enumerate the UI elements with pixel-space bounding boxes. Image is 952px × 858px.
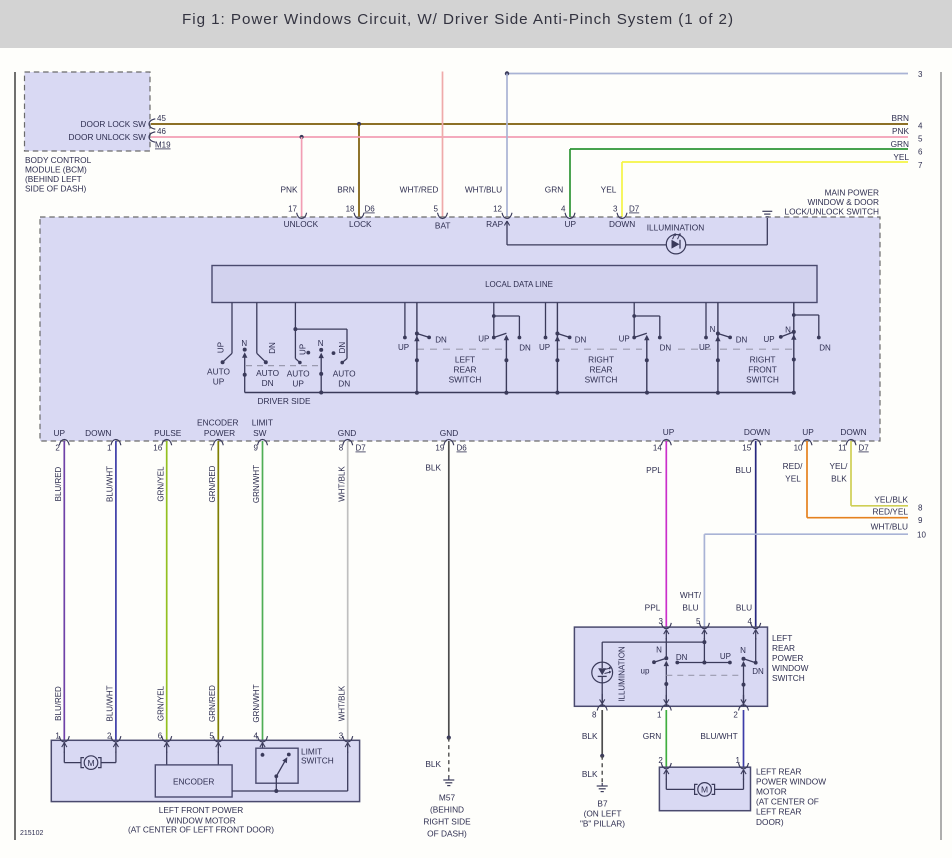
svg-text:6: 6 [918, 148, 923, 157]
svg-text:GRN/WHT: GRN/WHT [252, 465, 261, 503]
svg-text:12: 12 [493, 205, 502, 214]
svg-text:15: 15 [742, 444, 751, 453]
svg-text:AUTO: AUTO [287, 369, 310, 379]
wire label BLU at left rear switch [736, 603, 752, 613]
label DRIVER SIDE [257, 396, 310, 406]
svg-text:4: 4 [918, 122, 923, 131]
svg-text:YEL: YEL [601, 185, 617, 195]
svg-text:M57: M57 [439, 793, 456, 803]
svg-text:SWITCH: SWITCH [772, 673, 805, 683]
left rear power window switch S2 box [574, 627, 767, 706]
svg-text:UP: UP [478, 335, 489, 344]
right rear switch bracket pair [619, 303, 672, 393]
svg-text:AUTO: AUTO [256, 368, 279, 378]
svg-text:B7: B7 [597, 799, 608, 809]
svg-text:REAR: REAR [589, 365, 612, 375]
svg-text:BLU: BLU [735, 465, 751, 475]
svg-text:GRN: GRN [891, 139, 909, 149]
svg-text:M: M [701, 785, 708, 795]
svg-text:GRN/WHT: GRN/WHT [252, 684, 261, 722]
wire label WHT/RED at pin 5 [400, 185, 439, 195]
svg-text:DOWN: DOWN [840, 427, 866, 437]
left rear switch pole left labels [641, 646, 688, 676]
svg-text:LOCAL DATA LINE: LOCAL DATA LINE [485, 280, 553, 289]
wire BRN vertical drop to switch pin 18 [358, 124, 360, 217]
left front motor pin 4 [254, 731, 268, 742]
wire label BLK upper [425, 463, 441, 473]
wire GRN from right edge node 6 to switch pin 4 [570, 149, 908, 217]
right front switch second pole with bracket [763, 303, 831, 393]
wire label YEL/BLK upper [830, 461, 849, 483]
wire BLU/WHT pin 1 to motor pin 2 [115, 441, 117, 740]
ground label M57 (BEHIND RIGHT SIDE OF DASH) [423, 793, 471, 839]
svg-text:2: 2 [55, 444, 60, 453]
svg-text:UP: UP [299, 344, 308, 355]
switch pin 10 [794, 439, 812, 452]
svg-text:19: 19 [435, 444, 444, 453]
svg-text:(AT CENTER OF LEFT FRONT DOOR): (AT CENTER OF LEFT FRONT DOOR) [128, 825, 274, 835]
right page border [940, 72, 942, 840]
wire BLU/RED pin 2 to motor pin 1 [63, 441, 65, 740]
svg-text:Fig 1: Power Windows Circuit,: Fig 1: Power Windows Circuit, W/ Driver … [182, 11, 734, 28]
switch bottom labels row [54, 418, 867, 439]
svg-text:DN: DN [338, 379, 350, 389]
BCM connector pin 45 [149, 114, 166, 129]
svg-text:WHT/: WHT/ [680, 590, 702, 600]
left rear switch pin 5 arrow [702, 630, 707, 640]
wire label BLK at ground [582, 769, 598, 779]
left front motor caption [128, 805, 274, 835]
right edge label GRN and number 6 [891, 139, 923, 157]
svg-text:YEL/: YEL/ [830, 461, 849, 471]
switch pin 15 [742, 439, 760, 452]
svg-text:DN: DN [660, 343, 672, 352]
driver second auto-up bracket [293, 303, 347, 365]
svg-text:GRN: GRN [643, 731, 661, 741]
svg-text:7: 7 [209, 444, 214, 453]
wire PNK horizontal from BCM pin 46 to right edge node 5 [151, 136, 908, 138]
wire BLK pin 19 to ground M57 [447, 441, 451, 777]
svg-text:LOCK: LOCK [349, 219, 372, 229]
svg-text:MAIN POWER: MAIN POWER [825, 188, 879, 198]
svg-text:1: 1 [107, 444, 112, 453]
svg-text:WHT/BLK: WHT/BLK [337, 466, 346, 502]
svg-text:UP: UP [720, 652, 731, 661]
svg-text:BLU/WHT: BLU/WHT [106, 685, 115, 721]
svg-text:GRN/RED: GRN/RED [208, 465, 217, 502]
svg-text:46: 46 [157, 127, 166, 136]
svg-text:WHT/BLK: WHT/BLK [337, 685, 346, 721]
svg-text:BLU: BLU [682, 603, 698, 613]
junction on BRN wire [357, 122, 361, 126]
left rear switch illumination branch [602, 642, 704, 662]
driver auto-dn switch throw DN [257, 303, 277, 365]
wire GRN/WHT pin 9 to motor pin 4 [262, 441, 264, 740]
switch pin 18 LOCK connector D6 [346, 205, 376, 230]
svg-text:2: 2 [733, 710, 738, 719]
label LEFT REAR SWITCH [449, 355, 482, 385]
left rear switch pin 4 [748, 617, 761, 629]
chassis ground at switch top edge [762, 211, 772, 217]
svg-text:BRN: BRN [891, 113, 909, 123]
svg-text:2: 2 [658, 756, 663, 765]
svg-text:BLU/RED: BLU/RED [54, 466, 63, 501]
svg-text:SWITCH: SWITCH [746, 375, 779, 385]
left rear switch up/down pole right [741, 638, 758, 706]
driver mechanical link dashed [246, 365, 319, 367]
svg-text:N: N [318, 339, 324, 348]
svg-text:SWITCH: SWITCH [301, 756, 334, 766]
local data line bus box [212, 266, 817, 303]
limit switch S3 contacts [261, 753, 291, 791]
svg-text:BLU/WHT: BLU/WHT [106, 466, 115, 502]
BCM caption [25, 155, 92, 194]
svg-text:45: 45 [157, 114, 166, 123]
left rear switch pin 8 [592, 705, 607, 720]
svg-text:D6: D6 [365, 205, 376, 214]
svg-text:LOCK/UNLOCK SWITCH: LOCK/UNLOCK SWITCH [784, 207, 879, 217]
svg-text:BRN: BRN [337, 185, 355, 195]
svg-text:UP: UP [763, 335, 774, 344]
svg-text:ILLUMINATION: ILLUMINATION [617, 646, 626, 702]
svg-text:4: 4 [561, 205, 566, 214]
wire label WHT/BLU at left rear switch [680, 590, 702, 613]
driver auto-up switch throw UP [217, 303, 233, 365]
svg-text:SW: SW [253, 428, 267, 438]
svg-text:BLK: BLK [582, 769, 598, 779]
svg-text:DRIVER SIDE: DRIVER SIDE [257, 396, 310, 406]
wire label PNK at pin 17 [280, 185, 298, 195]
svg-text:DOWN: DOWN [744, 427, 770, 437]
right edge label YEL/BLK and number 8 [874, 494, 923, 512]
switch pin 7 [209, 439, 223, 452]
wire label YEL at pin 3 [601, 185, 617, 195]
svg-text:4: 4 [254, 731, 259, 740]
svg-text:SWITCH: SWITCH [449, 375, 482, 385]
svg-text:UP: UP [619, 335, 630, 344]
svg-text:RIGHT: RIGHT [588, 355, 614, 365]
svg-text:DN: DN [752, 667, 764, 676]
svg-text:LEFT: LEFT [455, 355, 475, 365]
svg-text:RIGHT: RIGHT [750, 355, 776, 365]
svg-text:D7: D7 [629, 205, 640, 214]
svg-text:UP: UP [663, 427, 675, 437]
svg-text:UP: UP [54, 428, 66, 438]
svg-text:LEFT REAR: LEFT REAR [756, 766, 802, 776]
left rear switch feed junctions [702, 638, 706, 665]
svg-text:PULSE: PULSE [154, 428, 182, 438]
svg-text:ENCODER: ENCODER [173, 777, 215, 787]
svg-text:PPL: PPL [645, 603, 661, 613]
left rear switch pin 2 [733, 705, 748, 720]
svg-text:UP: UP [539, 343, 550, 352]
svg-text:REAR: REAR [453, 365, 476, 375]
left rear switch mechanical link dashed [666, 674, 743, 676]
svg-text:OF DASH): OF DASH) [427, 829, 467, 839]
left rear switch pin 5 [696, 617, 709, 629]
switch pin 2 [55, 439, 69, 452]
BCM pin label DOOR UNLOCK SW [69, 132, 147, 142]
svg-text:3: 3 [918, 70, 923, 79]
driver second switch neutral pole N [318, 339, 324, 393]
wire label BLK at pin 8 [582, 731, 598, 741]
wire BLK left rear switch pin 8 to ground B7 [600, 710, 604, 783]
svg-text:8: 8 [918, 503, 923, 512]
left front motor M1 symbol [64, 752, 116, 770]
svg-text:3: 3 [659, 617, 664, 626]
svg-text:YEL: YEL [893, 152, 909, 162]
svg-text:M: M [87, 758, 94, 768]
switch pin 5 BAT [434, 205, 451, 231]
wire label GRN [643, 731, 661, 741]
label AUTO DN first [256, 368, 279, 388]
switch pin 12 RAP [486, 205, 512, 230]
wire WHT/BLU horizontal node 3 [507, 73, 908, 75]
svg-text:ENCODER: ENCODER [197, 418, 239, 428]
BCM connector pin 46 [149, 127, 166, 142]
wire label PPL at left rear switch [645, 603, 661, 613]
svg-text:5: 5 [209, 731, 214, 740]
label RIGHT FRONT SWITCH [746, 355, 779, 385]
wire label BRN at pin 18 [337, 185, 355, 195]
svg-text:DN: DN [338, 342, 347, 354]
svg-text:(AT CENTER OF: (AT CENTER OF [756, 797, 819, 807]
junction on PNK wire [300, 135, 304, 139]
svg-text:BAT: BAT [435, 221, 451, 231]
switch pin 8 connector D7 [339, 439, 367, 452]
svg-text:WHT/BLU: WHT/BLU [871, 522, 908, 532]
svg-text:GRN: GRN [545, 185, 563, 195]
svg-text:WINDOW: WINDOW [772, 663, 809, 673]
svg-text:D6: D6 [457, 444, 468, 453]
svg-text:1: 1 [657, 710, 662, 719]
svg-text:UP: UP [292, 379, 304, 389]
wire label PPL upper [646, 465, 662, 475]
left rear switch pin 1 [657, 705, 671, 720]
svg-text:AUTO: AUTO [207, 367, 230, 377]
switch pin 3 DOWN connector D7 [609, 205, 640, 230]
wire PPL pin 14 to left rear switch pin 3 [665, 441, 667, 627]
left rear switch illumination LED DS2 [592, 662, 613, 683]
svg-text:UP: UP [217, 342, 226, 353]
svg-text:REAR: REAR [772, 643, 795, 653]
svg-text:3: 3 [339, 731, 344, 740]
ground label B7 (ON LEFT B PILLAR) [580, 799, 625, 829]
svg-text:DOWN: DOWN [85, 428, 111, 438]
switch pin 19 connector D6 [435, 439, 467, 452]
wire YEL from right edge node 7 to switch pin 3 [622, 162, 908, 217]
main switch label MAIN POWER WINDOW & DOOR LOCK/UNLOCK SWITCH [784, 188, 879, 217]
label RIGHT REAR SWITCH [585, 355, 618, 385]
svg-text:PNK: PNK [892, 126, 910, 136]
left rear switch bracket pair [478, 303, 531, 393]
svg-text:LEFT REAR: LEFT REAR [756, 807, 802, 817]
svg-text:3: 3 [613, 205, 618, 214]
left front motor pin 5 [209, 731, 223, 742]
svg-text:LIMIT: LIMIT [252, 418, 273, 428]
right edge wire number 3 [918, 70, 923, 79]
left rear switch contact rail [675, 661, 731, 665]
svg-text:DN: DN [676, 653, 688, 662]
svg-text:DN: DN [736, 335, 748, 344]
svg-text:14: 14 [653, 444, 662, 453]
svg-text:SIDE OF DASH): SIDE OF DASH) [25, 184, 87, 194]
label AUTO DN second [333, 369, 356, 389]
svg-text:PNK: PNK [280, 185, 298, 195]
left rear motor pin arrows [664, 770, 746, 780]
svg-text:DN: DN [435, 335, 447, 344]
left rear switch pin 3 arrow [664, 630, 669, 640]
left rear switch up/down pole left [652, 638, 669, 706]
illumination LED DS1 [666, 233, 685, 254]
svg-text:N: N [785, 326, 791, 335]
junction node 3 [505, 71, 509, 75]
svg-text:LEFT: LEFT [772, 633, 792, 643]
svg-text:AUTO: AUTO [333, 369, 356, 379]
svg-text:FRONT: FRONT [748, 365, 777, 375]
svg-text:BLK: BLK [425, 759, 441, 769]
wire label WHT/BLU at pin 12 [465, 185, 502, 195]
wire WHT/RED vertical to switch pin 5 [442, 72, 444, 218]
svg-text:RAP: RAP [486, 219, 504, 229]
svg-text:BLU: BLU [736, 603, 752, 613]
left rear motor pin 2 [658, 756, 671, 769]
left front motor pin 1 [55, 731, 69, 742]
svg-text:16: 16 [153, 444, 162, 453]
svg-text:BLK: BLK [425, 463, 441, 473]
svg-text:"B" PILLAR): "B" PILLAR) [580, 818, 625, 828]
svg-text:SWITCH: SWITCH [585, 375, 618, 385]
left rear switch illumination output [600, 683, 605, 706]
svg-text:BLK: BLK [582, 731, 598, 741]
svg-text:WINDOW & DOOR: WINDOW & DOOR [808, 197, 879, 207]
wire GRN/YEL pin 16 to motor pin 6 [166, 441, 168, 740]
svg-text:RIGHT SIDE: RIGHT SIDE [423, 817, 471, 827]
svg-text:UP: UP [398, 343, 409, 352]
svg-text:M19: M19 [155, 141, 171, 150]
wire PNK vertical drop to switch pin 17 [301, 137, 303, 217]
svg-text:YEL/BLK: YEL/BLK [874, 494, 908, 504]
left rear motor M2 symbol [666, 779, 743, 797]
limit switch S3 box [256, 748, 298, 783]
wire label BLU/WHT [700, 731, 737, 741]
svg-text:DOOR): DOOR) [756, 817, 784, 827]
svg-text:ILLUMINATION: ILLUMINATION [647, 223, 704, 233]
svg-text:WHT/BLU: WHT/BLU [465, 185, 502, 195]
svg-text:GND: GND [338, 428, 356, 438]
svg-text:17: 17 [288, 205, 297, 214]
left front power window motor M1 box [51, 740, 359, 801]
wire WHT/BLU right edge node 10 to left rear switch pin 5 [704, 534, 908, 627]
svg-text:PPL: PPL [646, 465, 662, 475]
left front motor pin 6 [158, 731, 172, 742]
title header bar [0, 0, 952, 48]
svg-text:BLK: BLK [831, 474, 847, 484]
ground B7 [597, 783, 608, 792]
svg-text:5: 5 [918, 135, 923, 144]
encoder to pin 3 wire [232, 752, 348, 793]
right edge label WHT/BLU and number 10 [871, 522, 927, 540]
svg-text:GRN/RED: GRN/RED [208, 685, 217, 722]
left front motor pin 2 [107, 731, 121, 742]
illumination feed line [507, 218, 767, 245]
svg-text:RED/YEL: RED/YEL [872, 507, 908, 517]
right edge label RED/YEL and number 9 [872, 507, 923, 525]
svg-text:N: N [656, 646, 662, 655]
svg-text:5: 5 [696, 617, 701, 626]
switch pin 4 UP [561, 205, 576, 230]
svg-text:BLU/RED: BLU/RED [54, 686, 63, 721]
left front motor pin arrows [62, 743, 351, 753]
svg-text:10: 10 [917, 530, 926, 539]
left rear switch pole pair [398, 303, 447, 393]
BCM pin label DOOR LOCK SW [81, 119, 147, 129]
switch pin 11 connector D7 [838, 439, 869, 452]
svg-text:DN: DN [819, 343, 831, 352]
label AUTO UP first [207, 367, 230, 387]
rotated wire labels lower [54, 684, 346, 722]
svg-text:215102: 215102 [20, 830, 43, 837]
switch pin 9 [254, 439, 268, 452]
left page border [14, 72, 16, 840]
svg-text:POWER WINDOW: POWER WINDOW [756, 776, 826, 786]
left rear switch pin 4 arrow [753, 630, 758, 640]
svg-text:UNLOCK: UNLOCK [284, 219, 319, 229]
svg-text:5: 5 [434, 205, 439, 214]
switch pin 17 UNLOCK [284, 205, 319, 230]
svg-text:UP: UP [213, 377, 225, 387]
wire GRN left rear switch pin 1 to motor pin 2 [665, 710, 667, 767]
svg-text:DOWN: DOWN [609, 219, 635, 229]
svg-text:LEFT FRONT POWER: LEFT FRONT POWER [159, 805, 244, 815]
switch pin 14 [653, 439, 671, 452]
svg-text:UP: UP [699, 343, 710, 352]
svg-text:DN: DN [575, 335, 587, 344]
svg-text:RED/: RED/ [783, 461, 804, 471]
left rear switch pole right labels [720, 646, 764, 676]
RAP feed arrow into switch [504, 221, 509, 245]
svg-text:WHT/RED: WHT/RED [400, 185, 439, 195]
svg-text:8: 8 [339, 444, 344, 453]
svg-text:N: N [241, 339, 247, 348]
label AUTO UP second [287, 369, 310, 389]
wire WHT/BLU vertical to switch pin 12 [506, 74, 508, 218]
svg-text:9: 9 [254, 444, 259, 453]
encoder A1 box [155, 752, 232, 797]
wire label GRN at pin 4 [545, 185, 563, 195]
main power window and door lock/unlock switch S1 box [40, 217, 880, 441]
svg-text:DN: DN [262, 378, 274, 388]
wire WHT/BLK pin 8 to motor pin 3 [347, 441, 349, 740]
driver switch neutral pole N [241, 339, 247, 393]
wire label BLK lower [425, 759, 441, 769]
svg-text:GRN/YEL: GRN/YEL [156, 466, 165, 502]
switch pin 16 [153, 439, 171, 452]
svg-text:DN: DN [268, 342, 277, 354]
svg-text:D7: D7 [356, 444, 367, 453]
wire RED/YEL pin 10 to right edge node 9 [807, 441, 908, 518]
svg-text:7: 7 [918, 161, 923, 170]
wire label RED/YEL upper [783, 461, 804, 483]
right front switch pole pair with neutral [699, 303, 748, 393]
wire BRN horizontal from BCM pin 45 to right edge node 4 [151, 123, 908, 125]
svg-text:GND: GND [440, 428, 458, 438]
driver side bus wire [245, 392, 794, 394]
label ILLUMINATION [647, 223, 704, 233]
rear switch mechanical link dashed [417, 348, 792, 350]
left rear switch label [772, 633, 809, 683]
svg-text:BODY CONTROL: BODY CONTROL [25, 155, 92, 165]
